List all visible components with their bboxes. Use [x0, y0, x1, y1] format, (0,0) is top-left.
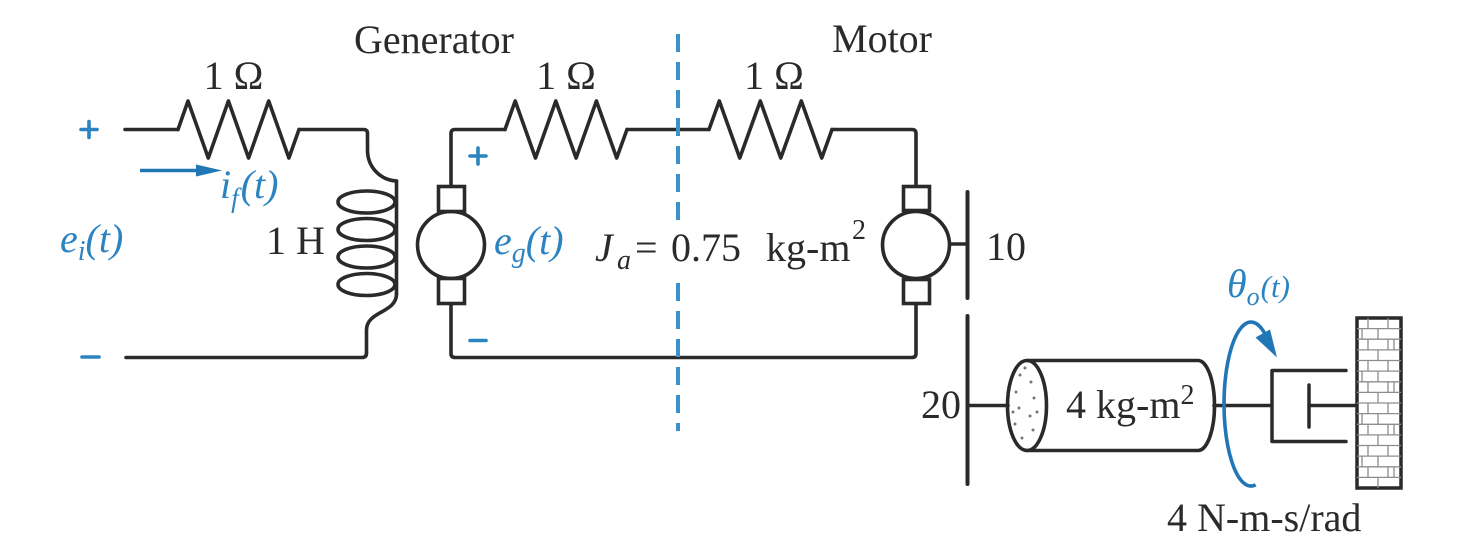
svg-text:Motor: Motor — [832, 16, 932, 61]
svg-text:eg(t): eg(t) — [494, 218, 564, 269]
svg-text:10: 10 — [986, 224, 1026, 269]
svg-text:4 N-m-s/rad: 4 N-m-s/rad — [1167, 495, 1361, 540]
svg-text:if(t): if(t) — [220, 162, 278, 213]
svg-text:1 H: 1 H — [266, 218, 325, 263]
svg-text:1 Ω: 1 Ω — [744, 53, 804, 98]
svg-text:Generator: Generator — [354, 17, 514, 62]
svg-text:20: 20 — [921, 382, 961, 427]
svg-text:ei(t): ei(t) — [60, 216, 123, 267]
svg-text:1 Ω: 1 Ω — [204, 53, 264, 98]
svg-text:1 Ω: 1 Ω — [536, 53, 596, 98]
svg-text:4 kg-m2: 4 kg-m2 — [1066, 380, 1194, 427]
svg-text:Ja=0.75kg-m2: Ja=0.75kg-m2 — [595, 215, 866, 276]
